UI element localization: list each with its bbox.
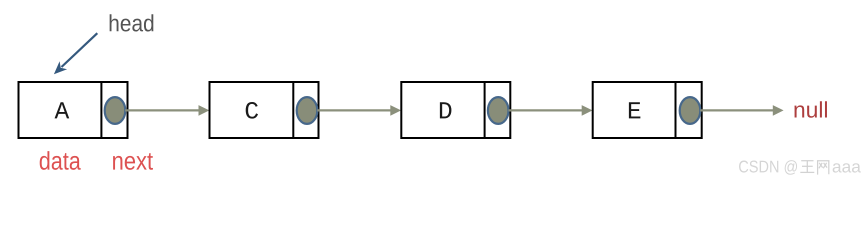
arrow from node C [317,105,401,116]
watermark CSDN @ [739,160,797,175]
node E divider [675,81,677,139]
node D divider [484,81,486,139]
node C divider [292,81,294,139]
next label [113,153,153,170]
node D box [401,82,510,138]
node E box [593,82,702,138]
node C box [210,82,319,138]
node A divider [100,81,102,139]
arrow from node A [125,105,209,116]
head label [110,14,154,31]
head pointer arrow [54,33,97,74]
watermark glyph wang (net) [818,161,829,175]
node A box [19,82,128,138]
watermark aaa [833,163,861,172]
node D next pointer dot [488,97,509,124]
arrow from node E [700,105,783,116]
node C next pointer dot [297,97,318,124]
node A data letter [55,102,70,118]
node C data letter [246,102,258,119]
watermark glyph wang (king) [800,161,814,173]
node E next pointer dot [680,97,701,124]
arrow from node D [508,105,592,116]
node E data letter [629,102,640,118]
null label [795,101,827,118]
data label [40,151,81,170]
node A next pointer dot [105,97,126,124]
node D data letter [440,102,452,118]
